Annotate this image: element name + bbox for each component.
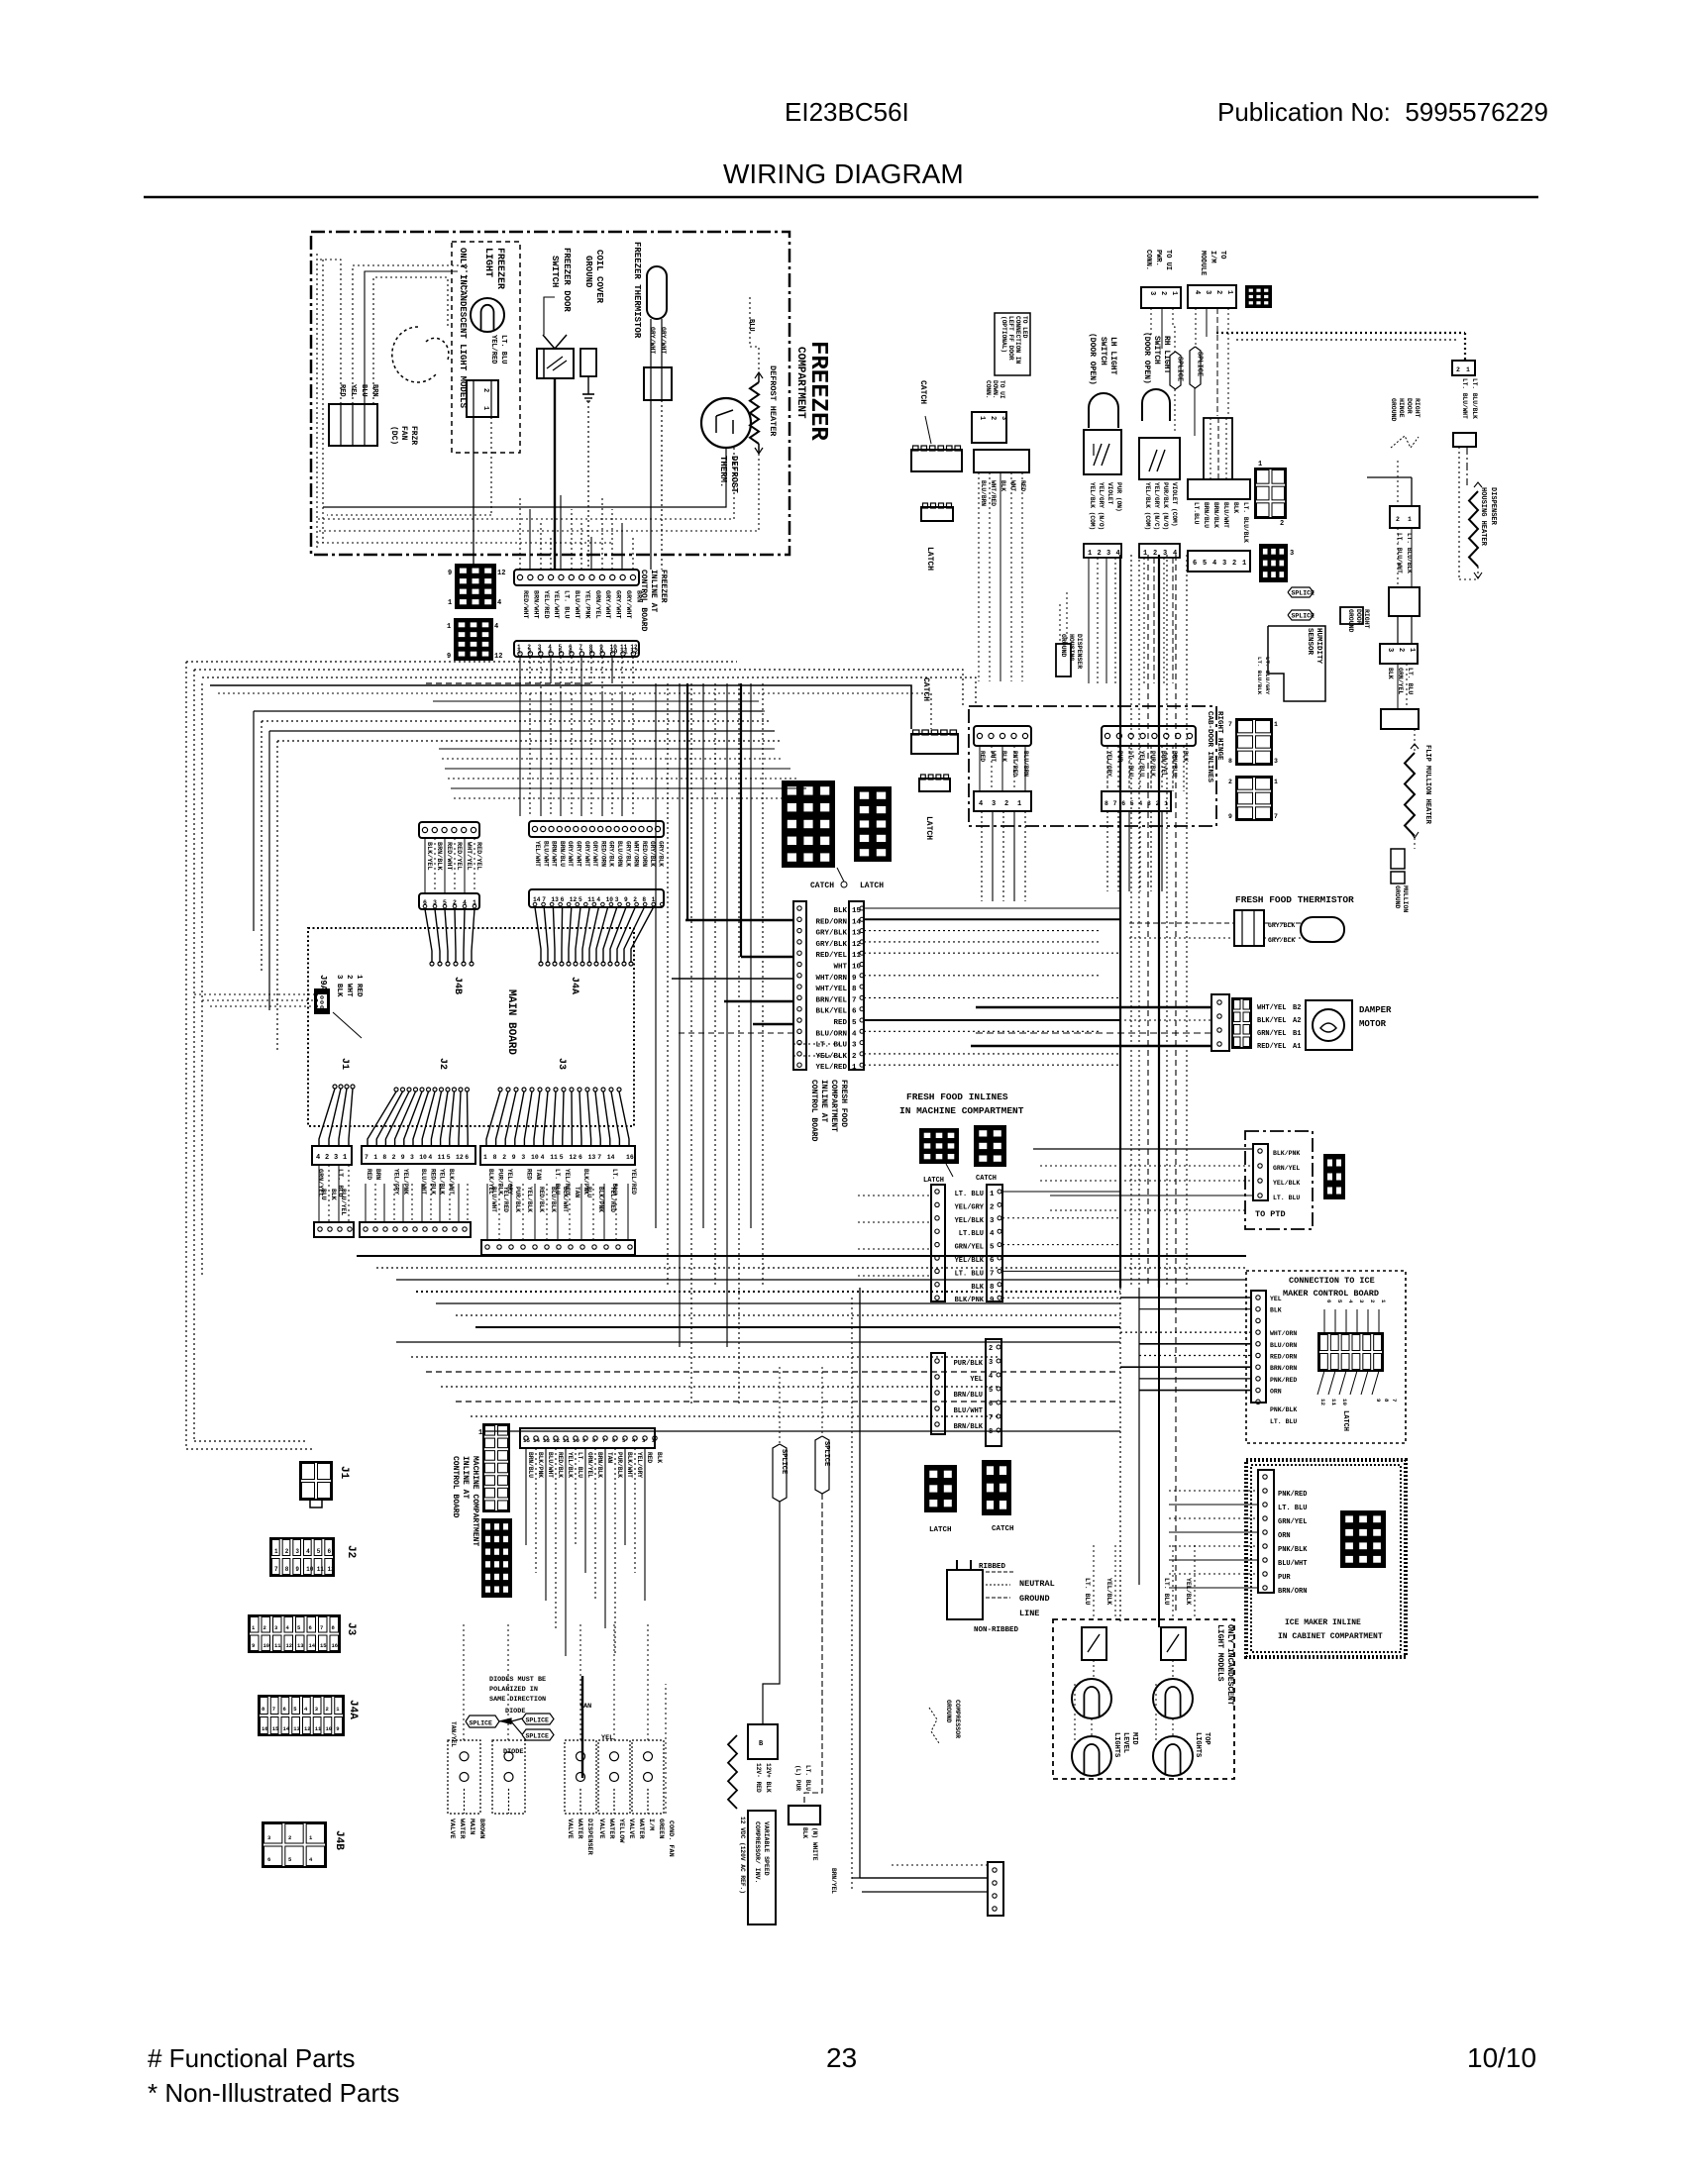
svg-text:FRZR: FRZR (409, 426, 418, 445)
svg-text:9: 9 (447, 653, 451, 661)
svg-text:GRN/YEL: GRN/YEL (586, 1452, 593, 1478)
svg-text:BLU/BLK: BLU/BLK (550, 1187, 557, 1212)
svg-text:4: 4 (1212, 560, 1216, 568)
svg-text:LT. BLU: LT. BLU (563, 590, 571, 619)
svg-text:12: 12 (553, 1437, 560, 1444)
svg-text:TOP: TOP (1203, 1732, 1210, 1745)
svg-text:COMPARTMENT: COMPARTMENT (829, 1080, 838, 1132)
svg-text:3: 3 (538, 649, 542, 656)
svg-text:YEL/BLK: YEL/BLK (955, 1217, 985, 1225)
svg-text:7: 7 (274, 1566, 278, 1573)
svg-text:7: 7 (1113, 800, 1117, 807)
svg-text:BLU/WHT: BLU/WHT (573, 590, 580, 619)
svg-text:WHT/YEL: WHT/YEL (465, 842, 473, 871)
svg-text:LEFT FF DOOR: LEFT FF DOOR (1007, 316, 1014, 361)
svg-text:6: 6 (1193, 560, 1197, 568)
svg-text:2: 2 (392, 1154, 396, 1161)
svg-text:BRN: BRN (374, 1169, 381, 1180)
svg-text:11: 11 (438, 1154, 446, 1161)
svg-text:GRY/WHT: GRY/WHT (591, 841, 598, 867)
svg-text:12V- RED: 12V- RED (755, 1763, 762, 1793)
svg-text:6: 6 (267, 1856, 270, 1863)
svg-text:YEL/RED: YEL/RED (489, 335, 497, 364)
svg-text:4: 4 (1347, 1300, 1354, 1303)
svg-text:SPLICE: SPLICE (822, 1441, 830, 1466)
svg-text:BRN/BLU: BRN/BLU (954, 1392, 983, 1400)
svg-text:YEL/PNK: YEL/PNK (582, 590, 590, 619)
svg-text:2: 2 (285, 1548, 289, 1555)
svg-text:2 WHT: 2 WHT (345, 975, 353, 997)
svg-text:7: 7 (1274, 813, 1278, 820)
svg-text:SPLICE: SPLICE (780, 1449, 788, 1474)
svg-text:10: 10 (419, 1154, 427, 1161)
svg-text:LT.BLU: LT.BLU (1193, 502, 1200, 525)
svg-text:A1: A1 (1293, 1043, 1301, 1051)
svg-text:12: 12 (570, 896, 578, 903)
svg-text:3: 3 (615, 896, 619, 903)
svg-text:9: 9 (252, 1642, 255, 1649)
svg-text:14: 14 (607, 1154, 615, 1161)
svg-text:CONN.: CONN. (985, 380, 992, 399)
svg-text:WHT: WHT (833, 964, 847, 972)
svg-text:MAIN: MAIN (468, 1819, 475, 1834)
svg-text:J1: J1 (338, 1466, 350, 1480)
svg-text:RED/YEL: RED/YEL (1257, 1043, 1286, 1051)
svg-text:6: 6 (465, 1154, 469, 1161)
svg-text:PNK/BLK: PNK/BLK (1270, 1406, 1297, 1413)
svg-text:5: 5 (579, 896, 582, 903)
svg-text:GRY/WHT: GRY/WHT (624, 590, 632, 619)
svg-text:LT. BLU/BLK: LT. BLU/BLK (1242, 502, 1249, 543)
svg-text:PNK/RED: PNK/RED (1270, 1377, 1297, 1384)
svg-text:YEL/BLK: YEL/BLK (526, 1187, 533, 1212)
svg-text:BROWN: BROWN (477, 1819, 485, 1838)
svg-text:13: 13 (297, 1642, 304, 1649)
svg-text:4: 4 (541, 1154, 545, 1161)
svg-text:1: 1 (274, 1548, 278, 1555)
svg-text:LT. BLU/BLK: LT. BLU/BLK (1256, 657, 1263, 695)
svg-text:RED/YEL: RED/YEL (455, 842, 463, 871)
svg-text:BRN/ORN: BRN/ORN (1270, 1365, 1297, 1372)
svg-text:GRN/YEL: GRN/YEL (955, 1244, 984, 1252)
svg-text:3: 3 (334, 1154, 338, 1162)
svg-text:BLU/WHT: BLU/WHT (420, 1169, 427, 1195)
svg-text:2: 2 (288, 1834, 291, 1841)
svg-text:VIOLET (COM): VIOLET (COM) (1171, 482, 1178, 527)
svg-text:NEUTRAL: NEUTRAL (1019, 1579, 1055, 1589)
svg-text:CONNECTION IN: CONNECTION IN (1014, 316, 1021, 364)
svg-text:YEL: YEL (349, 384, 357, 397)
svg-text:BRN/ORN: BRN/ORN (1278, 1588, 1307, 1596)
svg-text:WIRING DIAGRAM: WIRING DIAGRAM (723, 158, 964, 189)
svg-text:10/10: 10/10 (1467, 2042, 1536, 2073)
svg-text:LT. BLU/BLK: LT. BLU/BLK (1471, 378, 1478, 419)
svg-text:LATCH: LATCH (1341, 1410, 1349, 1431)
svg-text:YEL/RED: YEL/RED (502, 1187, 509, 1212)
svg-text:2: 2 (326, 1706, 329, 1713)
svg-text:TO PTD: TO PTD (1255, 1209, 1286, 1219)
svg-text:DISPENSER: DISPENSER (1489, 487, 1497, 526)
svg-text:BLK: BLK (833, 907, 847, 915)
svg-text:4: 4 (548, 649, 552, 656)
svg-text:COMPRESSOR/ INV.: COMPRESSOR/ INV. (754, 1821, 761, 1883)
svg-text:PUR/BLK (N/O): PUR/BLK (N/O) (1162, 482, 1169, 530)
svg-text:BRN/BLK: BRN/BLK (435, 842, 443, 871)
svg-text:MAKER CONTROL BOARD: MAKER CONTROL BOARD (1283, 1289, 1379, 1299)
svg-text:VARIABLE SPEED: VARIABLE SPEED (763, 1821, 770, 1876)
svg-text:CONTROL BOARD: CONTROL BOARD (639, 570, 648, 632)
svg-text:GROUND: GROUND (583, 256, 593, 288)
svg-text:MOTOR: MOTOR (1359, 1019, 1387, 1029)
svg-text:LATCH: LATCH (923, 1177, 944, 1185)
svg-text:BLU: BLU (747, 319, 755, 332)
svg-text:WHT/YEL: WHT/YEL (815, 986, 847, 993)
svg-text:J4A: J4A (347, 1700, 359, 1719)
svg-text:GRY/BLK: GRY/BLK (624, 841, 631, 867)
svg-text:16: 16 (332, 1642, 339, 1649)
svg-text:5: 5 (622, 1437, 626, 1444)
svg-text:BRN/YEL: BRN/YEL (830, 1868, 837, 1894)
svg-text:YEL/BLK: YEL/BLK (1185, 1578, 1192, 1605)
svg-text:VIOLET: VIOLET (1106, 482, 1113, 505)
svg-text:YEL: YEL (970, 1376, 983, 1384)
svg-text:2: 2 (1280, 520, 1284, 528)
svg-text:12: 12 (497, 570, 505, 577)
svg-text:GRN/YEL: GRN/YEL (1278, 1518, 1307, 1526)
svg-text:TO UI: TO UI (999, 380, 1005, 399)
svg-text:1: 1 (1274, 721, 1278, 728)
svg-text:3: 3 (989, 1359, 993, 1367)
svg-text:LINE: LINE (1019, 1609, 1039, 1618)
svg-text:(OPTIONAL): (OPTIONAL) (1000, 316, 1007, 353)
svg-text:10: 10 (573, 1437, 579, 1444)
svg-text:1: 1 (447, 623, 451, 631)
svg-text:12: 12 (569, 1154, 577, 1161)
svg-text:I/M: I/M (647, 1819, 655, 1830)
svg-text:J4B: J4B (452, 977, 463, 994)
svg-text:MACHINE COMPARTMENT: MACHINE COMPARTMENT (471, 1456, 479, 1546)
svg-text:FREEZER: FREEZER (659, 570, 668, 603)
svg-text:12: 12 (1319, 1399, 1326, 1405)
svg-text:GROUND: GROUND (1390, 398, 1397, 422)
svg-text:4: 4 (497, 599, 501, 607)
svg-text:1: 1 (1088, 550, 1092, 558)
svg-text:HOUSING HEATER: HOUSING HEATER (1479, 487, 1487, 547)
svg-text:3: 3 (1222, 560, 1226, 568)
svg-text:13: 13 (293, 1725, 300, 1732)
svg-text:2: 2 (1369, 1300, 1376, 1303)
svg-text:12: 12 (494, 653, 502, 661)
svg-text:3 BLK: 3 BLK (335, 975, 343, 997)
svg-text:LT. BLU: LT. BLU (804, 1765, 811, 1791)
svg-text:2: 2 (990, 1203, 995, 1211)
svg-text:BLU/ORN: BLU/ORN (616, 841, 623, 867)
svg-text:GRY/WHT: GRY/WHT (576, 841, 582, 867)
svg-text:RED: RED (366, 1169, 372, 1180)
svg-text:YEL/BLK (COM): YEL/BLK (COM) (1089, 482, 1096, 530)
svg-text:RED/WHT: RED/WHT (445, 842, 453, 871)
svg-text:1: 1 (1242, 560, 1246, 568)
svg-text:TO UI: TO UI (1164, 250, 1172, 270)
svg-text:LT. BLU: LT. BLU (1084, 1578, 1091, 1605)
svg-text:3: 3 (521, 1154, 525, 1161)
svg-text:16: 16 (262, 1725, 268, 1732)
svg-text:10: 10 (263, 1642, 270, 1649)
svg-text:LT. BLU: LT. BLU (955, 1270, 984, 1278)
svg-text:2: 2 (1159, 291, 1167, 295)
svg-text:BLU/YEL: BLU/YEL (340, 1189, 347, 1215)
svg-text:MULLION: MULLION (1402, 885, 1409, 912)
svg-text:BLU: BLU (585, 1187, 592, 1197)
svg-text:1: 1 (1170, 291, 1178, 295)
svg-text:HUMIDITY: HUMIDITY (1315, 628, 1322, 665)
svg-text:3: 3 (1290, 550, 1294, 558)
svg-text:FRESH FOOD INLINES: FRESH FOOD INLINES (906, 1092, 1008, 1102)
svg-text:RED/WHT: RED/WHT (521, 590, 529, 619)
svg-text:FRESH FOOD: FRESH FOOD (839, 1080, 848, 1127)
svg-text:2: 2 (502, 1154, 506, 1161)
svg-text:8: 8 (1383, 1399, 1390, 1403)
svg-text:1: 1 (343, 1154, 347, 1162)
svg-text:ORN: ORN (1270, 1389, 1282, 1396)
svg-text:12: 12 (304, 1725, 311, 1732)
svg-text:1: 1 (483, 1154, 487, 1161)
svg-text:4: 4 (306, 1548, 310, 1555)
svg-text:13: 13 (588, 1154, 596, 1161)
svg-text:15: 15 (272, 1725, 279, 1732)
svg-text:8: 8 (592, 1437, 596, 1444)
svg-text:LT. BLU: LT. BLU (815, 1042, 847, 1050)
svg-text:1: 1 (1380, 1300, 1387, 1303)
svg-text:RED: RED (1019, 480, 1026, 491)
svg-text:10: 10 (606, 896, 614, 903)
svg-text:BLK: BLK (656, 1452, 663, 1463)
svg-text:7: 7 (320, 1624, 323, 1631)
svg-text:BRN/WHT: BRN/WHT (531, 590, 539, 619)
svg-text:WATER: WATER (637, 1819, 645, 1839)
svg-text:9: 9 (582, 1437, 586, 1444)
svg-text:12: 12 (328, 1566, 336, 1573)
svg-text:SENSOR: SENSOR (1306, 628, 1314, 656)
svg-text:GRY/BLK: GRY/BLK (608, 841, 615, 867)
svg-text:YEL/BLK: YEL/BLK (955, 1257, 985, 1265)
svg-text:BRN/BLU: BRN/BLU (1203, 502, 1210, 528)
svg-text:5: 5 (447, 1154, 451, 1161)
svg-text:4: 4 (989, 1373, 993, 1381)
svg-text:FREEZER THERMISTOR: FREEZER THERMISTOR (632, 242, 642, 339)
svg-text:TO LED: TO LED (1021, 316, 1028, 339)
svg-text:14: 14 (533, 1437, 540, 1444)
svg-text:(DOOR OPEN): (DOOR OPEN) (1088, 333, 1097, 385)
svg-text:BLK: BLK (801, 1827, 808, 1838)
svg-text:GRY/WHT: GRY/WHT (603, 590, 611, 619)
svg-text:11: 11 (317, 1566, 325, 1573)
svg-text:8: 8 (285, 1566, 289, 1573)
svg-text:5: 5 (1203, 560, 1207, 568)
svg-text:1: 1 (373, 1154, 377, 1161)
svg-text:A2: A2 (1293, 1017, 1301, 1025)
svg-text:9: 9 (401, 1154, 405, 1161)
svg-text:DIODES MUST BE: DIODES MUST BE (489, 1676, 546, 1684)
svg-text:INLINE AT: INLINE AT (649, 570, 658, 612)
svg-text:BLU: BLU (360, 384, 368, 397)
svg-text:DOWN.: DOWN. (992, 380, 999, 399)
svg-text:LH LIGHT: LH LIGHT (1108, 337, 1117, 375)
svg-text:3: 3 (1000, 416, 1007, 420)
svg-text:WHT: WHT (990, 751, 997, 762)
svg-text:FLIP MULLION HEATER: FLIP MULLION HEATER (1423, 745, 1431, 825)
svg-text:4: 4 (1173, 550, 1177, 558)
svg-text:SAME DIRECTION: SAME DIRECTION (489, 1696, 546, 1704)
svg-text:RED/BLK: RED/BLK (557, 1452, 564, 1478)
svg-text:LT. BLU: LT. BLU (1273, 1195, 1300, 1201)
svg-text:SPLICE: SPLICE (1176, 357, 1184, 381)
svg-text:1: 1 (1143, 550, 1147, 558)
svg-text:COMPARTMENT: COMPARTMENT (794, 347, 806, 419)
svg-text:YEL: YEL (1270, 1296, 1282, 1302)
svg-text:DEFROST HEATER: DEFROST HEATER (768, 365, 778, 437)
svg-text:11: 11 (550, 1154, 558, 1161)
svg-text:1: 1 (852, 1064, 857, 1072)
svg-text:CONTROL BOARD: CONTROL BOARD (451, 1456, 460, 1518)
svg-text:9: 9 (295, 1566, 299, 1573)
svg-text:3: 3 (410, 1154, 414, 1161)
svg-text:GRY/WHT: GRY/WHT (660, 327, 667, 354)
svg-text:4: 4 (428, 1154, 432, 1161)
svg-text:BLU/WHT: BLU/WHT (490, 1187, 497, 1212)
svg-text:9: 9 (448, 570, 452, 577)
svg-text:GRY/WHT: GRY/WHT (567, 841, 574, 867)
svg-text:FAN: FAN (399, 426, 408, 441)
svg-text:DOOR: DOOR (1406, 398, 1413, 414)
svg-text:2: 2 (1456, 366, 1460, 373)
svg-text:14: 14 (283, 1725, 290, 1732)
svg-text:PUR/BLK: PUR/BLK (1149, 751, 1156, 777)
svg-text:LIGHT MODELS: LIGHT MODELS (1215, 1624, 1224, 1682)
svg-text:TAN: TAN (535, 1169, 542, 1180)
svg-text:BLK: BLK (1182, 751, 1189, 762)
svg-text:1: 1 (990, 1191, 995, 1198)
svg-text:WHT/YEL: WHT/YEL (1257, 1004, 1286, 1012)
svg-text:11: 11 (274, 1642, 281, 1649)
svg-text:GRY/WHT: GRY/WHT (614, 590, 622, 619)
svg-text:LT. BLU/WHT: LT. BLU/WHT (1461, 378, 1468, 419)
svg-text:GROUND: GROUND (1347, 609, 1354, 633)
svg-text:10: 10 (1341, 1399, 1348, 1405)
svg-text:6: 6 (328, 1548, 332, 1555)
svg-text:J1: J1 (339, 1058, 350, 1070)
svg-text:GRY/WHT: GRY/WHT (583, 841, 590, 867)
svg-text:FREEZER DOOR: FREEZER DOOR (562, 248, 572, 312)
svg-text:13: 13 (543, 1437, 550, 1444)
svg-text:VALVE: VALVE (448, 1819, 456, 1838)
svg-text:BLK/YEL: BLK/YEL (815, 1008, 847, 1016)
svg-text:RED: RED (525, 1169, 532, 1180)
svg-text:7: 7 (272, 1706, 275, 1713)
svg-text:POLARIZED IN: POLARIZED IN (489, 1686, 538, 1694)
svg-text:VALVE: VALVE (627, 1819, 635, 1838)
svg-text:LATCH: LATCH (924, 816, 933, 840)
svg-text:YEL/BLK: YEL/BLK (567, 1452, 574, 1478)
svg-text:PNK/BLK: PNK/BLK (1278, 1546, 1308, 1554)
svg-text:8: 8 (990, 1284, 995, 1292)
svg-text:TAN: TAN (574, 1187, 580, 1197)
svg-text:12: 12 (286, 1642, 293, 1649)
svg-text:8: 8 (852, 986, 857, 993)
svg-text:YELLOW: YELLOW (617, 1819, 625, 1843)
svg-text:FREEZER: FREEZER (494, 248, 505, 289)
svg-text:J2: J2 (437, 1058, 448, 1070)
svg-text:BRN/BLU: BRN/BLU (527, 1452, 534, 1478)
svg-text:RED: RED (338, 384, 346, 397)
svg-text:15: 15 (523, 1437, 530, 1444)
svg-text:2: 2 (1228, 779, 1232, 785)
svg-text:YEL/GRY (N/O): YEL/GRY (N/O) (1098, 482, 1105, 530)
svg-text:2: 2 (527, 649, 531, 656)
svg-text:6: 6 (579, 1154, 582, 1161)
svg-text:COND. FAN: COND. FAN (667, 1820, 675, 1857)
svg-text:* Non-Illustrated Parts: * Non-Illustrated Parts (148, 2078, 399, 2108)
svg-text:YEL/GRY: YEL/GRY (955, 1203, 985, 1211)
svg-text:BLK: BLK (330, 1189, 337, 1200)
svg-text:9: 9 (852, 975, 857, 983)
svg-text:RED: RED (646, 1452, 653, 1463)
svg-text:SPLICE: SPLICE (1292, 612, 1316, 619)
svg-text:8: 8 (589, 649, 593, 656)
svg-text:YEL/RED: YEL/RED (609, 1187, 616, 1212)
svg-text:4: 4 (316, 1154, 320, 1162)
svg-text:1: 1 (1274, 779, 1278, 785)
svg-text:2: 2 (325, 1154, 329, 1162)
svg-text:B1: B1 (1293, 1030, 1301, 1038)
svg-text:BLK: BLK (1270, 1307, 1282, 1314)
svg-text:CATCH: CATCH (918, 380, 927, 404)
svg-text:BRN/YEL: BRN/YEL (1160, 751, 1167, 777)
svg-text:4: 4 (1193, 290, 1201, 294)
svg-text:12: 12 (456, 1154, 464, 1161)
svg-text:14: 14 (309, 1642, 316, 1649)
svg-text:8: 8 (493, 1154, 497, 1161)
svg-text:HINGE: HINGE (1398, 398, 1405, 418)
svg-text:RED/ORN: RED/ORN (815, 918, 847, 926)
svg-text:EI23BC56I: EI23BC56I (785, 97, 909, 127)
svg-text:6: 6 (990, 1257, 995, 1265)
svg-text:5: 5 (559, 649, 563, 656)
svg-text:2: 2 (652, 1437, 656, 1444)
svg-text:BLU/WHT: BLU/WHT (542, 841, 549, 867)
svg-text:2: 2 (1153, 550, 1157, 558)
svg-text:J3: J3 (556, 1058, 567, 1070)
svg-text:SPLICE: SPLICE (526, 1716, 550, 1723)
svg-text:LT. BLU/WHT: LT. BLU/WHT (1396, 533, 1403, 573)
svg-text:BLK: BLK (971, 1284, 984, 1292)
svg-text:BRN/BLK: BRN/BLK (596, 1452, 603, 1478)
svg-text:PUR/BLK: PUR/BLK (616, 1452, 623, 1478)
svg-text:RED/YEL: RED/YEL (815, 952, 847, 960)
svg-text:RNT/RED: RNT/RED (1011, 751, 1018, 777)
svg-text:PWR.: PWR. (1154, 250, 1162, 266)
svg-text:7: 7 (597, 1154, 601, 1161)
svg-text:J4A: J4A (569, 977, 579, 994)
svg-text:3: 3 (1106, 550, 1110, 558)
svg-text:1: 1 (1164, 800, 1168, 807)
svg-text:YEL/GRY: YEL/GRY (636, 1452, 643, 1478)
svg-text:7: 7 (989, 1414, 993, 1422)
svg-text:6: 6 (1325, 1300, 1332, 1303)
svg-text:2: 2 (481, 388, 489, 392)
svg-text:LT. BLU: LT. BLU (1163, 1578, 1170, 1605)
svg-text:YEL/RED: YEL/RED (630, 1169, 637, 1195)
